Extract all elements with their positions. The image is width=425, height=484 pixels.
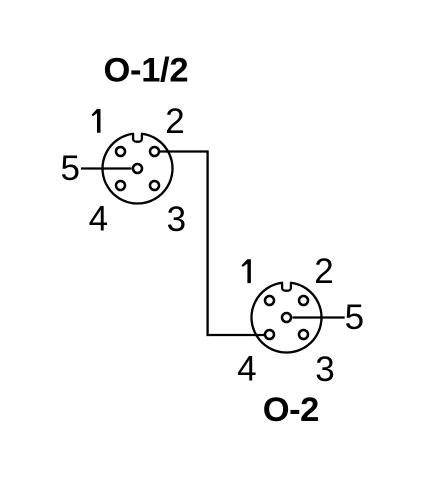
svg-text:2: 2	[314, 252, 333, 291]
pin 5 (connector O-1/2, center contact)	[133, 164, 142, 173]
pin 4 (connector O-1/2, bottom-left contact)	[116, 181, 125, 190]
pin 4 (connector O-2, bottom-left contact)	[265, 330, 274, 339]
svg-text:3: 3	[315, 350, 334, 389]
svg-text:5: 5	[60, 149, 79, 188]
pin 3 (connector O-2, bottom-right contact)	[299, 330, 308, 339]
pin number 1 (connector O-1/2)	[92, 109, 101, 133]
connector O-1/2 body (circle with keyway notch)	[103, 134, 173, 204]
wire: pin 5 lead out of center contact of O-2	[293, 316, 345, 318]
svg-text:2: 2	[165, 102, 184, 141]
wire: horizontal bottom segment into pin 4 of O-2	[208, 334, 265, 336]
pin 5 (connector O-2, center contact)	[282, 313, 291, 322]
svg-text:5: 5	[345, 298, 364, 337]
wire: pin 2 of O-1/2 to pin 4 of O-2 (horizontal top segment)	[159, 150, 208, 152]
pin 1 (connector O-1/2, top-left contact)	[116, 147, 125, 156]
pin 3 (connector O-1/2, bottom-right contact)	[150, 181, 159, 190]
svg-text:4: 4	[89, 200, 108, 239]
pin 2 (connector O-2, top-right contact)	[299, 296, 308, 305]
svg-text:O-2: O-2	[263, 391, 320, 429]
wire: vertical segment	[206, 150, 208, 336]
svg-text:3: 3	[167, 200, 186, 239]
wire: pin 5 lead into center contact of O-1/2	[81, 167, 132, 169]
pin 2 (connector O-1/2, top-right contact)	[150, 147, 159, 156]
svg-text:4: 4	[237, 350, 256, 389]
svg-text:O-1/2: O-1/2	[104, 52, 189, 90]
connector O-2 body (circle with keyway notch)	[252, 283, 322, 353]
pin number 1 (connector O-2)	[242, 259, 251, 283]
pin 1 (connector O-2, top-left contact)	[265, 296, 274, 305]
